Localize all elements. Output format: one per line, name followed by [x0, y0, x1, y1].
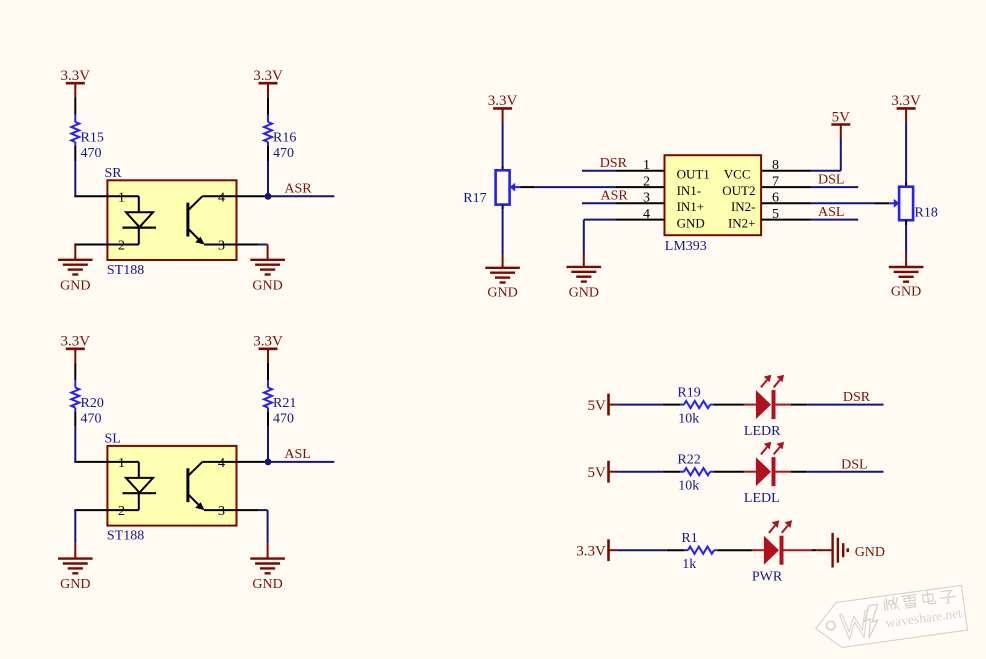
pin 1 of SL: [74, 456, 139, 471]
svg-text:470: 470: [81, 146, 102, 161]
svg-text:IN1+: IN1+: [677, 199, 705, 214]
pin 4 of SR: [202, 190, 264, 205]
pin label IN1+: [677, 199, 705, 214]
svg-text:6: 6: [772, 191, 779, 206]
svg-text:R15: R15: [81, 131, 104, 146]
pin 8 of U1: [761, 158, 811, 173]
svg-text:2: 2: [118, 504, 125, 519]
svg-text:7: 7: [772, 174, 779, 189]
wire (R21 to node ASL): [267, 412, 269, 462]
pin label OUT1: [677, 167, 710, 182]
svg-text:VCC: VCC: [724, 167, 751, 182]
pin 2 of U1: [616, 174, 665, 189]
node ASR junction: [265, 193, 272, 200]
resistor R21 470: [264, 380, 296, 427]
wire net ASL: [811, 205, 858, 220]
svg-text:SL: SL: [105, 432, 121, 447]
ground (SL pin 2): [58, 510, 93, 592]
svg-text:3: 3: [218, 504, 225, 519]
power 5V (row LEDL): [588, 461, 609, 483]
svg-text:5V: 5V: [588, 398, 607, 414]
resistor R15 470: [71, 115, 104, 162]
svg-text:IN1-: IN1-: [677, 183, 702, 198]
pin label VCC: [724, 167, 751, 182]
svg-text:DSL: DSL: [841, 457, 867, 472]
svg-text:ASL: ASL: [818, 205, 844, 220]
power 3.3V (SL right rail): [253, 334, 283, 363]
LED diode inside SL: [123, 462, 157, 510]
wire net ASL: [268, 447, 334, 462]
wire (R19 to LEDR): [714, 404, 744, 406]
resistor R1 1k: [681, 531, 717, 572]
ground (R17): [485, 254, 520, 300]
svg-text:3.3V: 3.3V: [891, 93, 921, 109]
svg-text:R19: R19: [677, 386, 700, 401]
wire (5V to R22): [609, 471, 681, 473]
ground (U1 pin 4): [567, 254, 602, 301]
svg-text:3: 3: [218, 239, 225, 254]
wire (3.3V to R18): [905, 122, 907, 186]
LED emission arrow: [774, 442, 784, 455]
svg-text:R22: R22: [677, 453, 700, 468]
wire (pin 6 to R18 wiper): [811, 199, 900, 208]
svg-text:ASL: ASL: [284, 447, 310, 462]
wire net ASR: [268, 181, 334, 196]
svg-text:GND: GND: [855, 545, 885, 560]
svg-text:470: 470: [81, 412, 102, 427]
power 3.3V (R18 rail): [891, 93, 921, 122]
pin label IN2-: [731, 199, 756, 214]
svg-text:DSR: DSR: [600, 156, 628, 171]
pin 4 of SL: [202, 456, 264, 471]
wire (R17 wiper to pin 2): [510, 183, 616, 192]
svg-text:GND: GND: [677, 216, 705, 231]
wire (R1 to PWR): [718, 549, 752, 551]
resistor R19 10k: [677, 386, 713, 427]
power 3.3V (SR right rail): [253, 68, 283, 97]
svg-text:GND: GND: [60, 278, 90, 293]
svg-text:8: 8: [772, 158, 779, 173]
svg-text:1: 1: [643, 158, 650, 173]
svg-text:ST188: ST188: [107, 263, 144, 278]
wire net DSR: [582, 156, 628, 171]
pin label GND: [677, 216, 705, 231]
power 3.3V (SL left rail): [61, 334, 91, 363]
svg-text:3.3V: 3.3V: [61, 68, 91, 84]
power 5V (U1): [831, 109, 850, 138]
svg-text:10k: 10k: [678, 412, 699, 427]
ground (rotated, PWR row): [833, 533, 885, 568]
svg-text:5: 5: [772, 207, 779, 222]
svg-text:SR: SR: [105, 166, 123, 181]
wire net DSL (LEDL): [776, 457, 884, 472]
svg-text:DSL: DSL: [818, 173, 844, 188]
svg-text:4: 4: [643, 207, 650, 222]
wire (3.3V to R1): [609, 549, 685, 551]
wire (R20 to pin 1): [74, 412, 76, 462]
pin label OUT2: [722, 183, 755, 198]
power 3.3V (row PWR): [576, 539, 608, 561]
wire (pin 8 to 5V): [811, 138, 841, 171]
wire net DSL: [811, 173, 858, 188]
LED emission arrow: [774, 375, 784, 388]
phototransistor inside SR: [188, 196, 205, 244]
svg-text:R18: R18: [915, 206, 938, 221]
svg-text:1k: 1k: [682, 557, 696, 572]
phototransistor inside SL: [188, 462, 205, 510]
pin 3 of SL: [204, 504, 258, 519]
LED emission arrow: [761, 375, 771, 388]
wire (3.3V to R20): [74, 363, 76, 380]
svg-text:OUT2: OUT2: [722, 183, 755, 198]
resistor R16 470: [264, 115, 296, 162]
svg-text:3.3V: 3.3V: [61, 334, 91, 350]
wire (pin 4 to ground): [584, 220, 616, 254]
LED emission arrow: [761, 442, 771, 455]
watermark waveshare logo tag: [816, 585, 968, 647]
ground (SR pin 3): [250, 245, 285, 294]
node ASL junction: [265, 459, 272, 466]
ground (R18): [889, 254, 924, 300]
svg-text:ST188: ST188: [107, 528, 144, 543]
pin 6 of U1: [761, 191, 811, 206]
power 3.3V (SR left rail): [61, 68, 91, 97]
LED PWR: [752, 536, 784, 585]
pin 1 of U1: [616, 158, 665, 173]
optocoupler SR ST188 body: [105, 166, 237, 278]
svg-text:IN2-: IN2-: [731, 199, 756, 214]
svg-text:5V: 5V: [832, 109, 851, 125]
svg-text:GND: GND: [252, 278, 282, 293]
LED emission arrow: [769, 520, 779, 533]
svg-text:LM393: LM393: [665, 239, 707, 254]
wire (pin 3 to ground): [258, 244, 268, 246]
potentiometer R18: [899, 187, 938, 221]
svg-text:GND: GND: [891, 285, 921, 300]
wire (3.3V to R17): [502, 122, 504, 170]
pin label IN1-: [677, 183, 702, 198]
wire (R16 to node ASR): [267, 146, 269, 196]
svg-text:R1: R1: [681, 531, 697, 546]
pin 3 of SR: [204, 239, 258, 254]
svg-text:ASR: ASR: [284, 181, 312, 196]
wire (R15 to pin 1): [74, 146, 76, 196]
svg-text:DSR: DSR: [843, 390, 871, 405]
svg-text:1: 1: [118, 456, 125, 471]
resistor R20 470: [71, 380, 104, 427]
svg-text:GND: GND: [569, 285, 599, 300]
svg-text:R17: R17: [463, 191, 486, 206]
svg-text:3: 3: [643, 191, 650, 206]
svg-text:PWR: PWR: [752, 570, 783, 585]
ground (SL pin 3): [250, 510, 285, 592]
pin 7 of U1: [761, 174, 811, 189]
svg-text:LEDR: LEDR: [744, 424, 781, 439]
LED LEDR: [744, 390, 781, 439]
wire (R18 to ground): [905, 220, 907, 253]
wire net ASR: [582, 189, 628, 204]
svg-text:1: 1: [118, 190, 125, 205]
pin 1 of SR: [74, 190, 139, 205]
svg-text:R20: R20: [81, 396, 104, 411]
wire (PWR LED to ground): [784, 549, 832, 551]
svg-text:470: 470: [273, 412, 294, 427]
svg-text:3.3V: 3.3V: [253, 68, 283, 84]
power 3.3V (R17 rail): [488, 93, 518, 122]
LED diode inside SR: [123, 196, 157, 244]
svg-text:2: 2: [643, 174, 650, 189]
svg-text:GND: GND: [60, 577, 90, 592]
svg-text:3.3V: 3.3V: [576, 544, 606, 560]
svg-text:5V: 5V: [588, 465, 607, 481]
svg-text:OUT1: OUT1: [677, 167, 710, 182]
pin label IN2+: [728, 216, 756, 231]
svg-text:ASR: ASR: [601, 189, 629, 204]
svg-text:10k: 10k: [678, 479, 699, 494]
resistor R22 10k: [677, 453, 713, 494]
potentiometer R17: [463, 170, 509, 206]
svg-text:4: 4: [218, 456, 225, 471]
svg-text:3.3V: 3.3V: [488, 93, 518, 109]
pin 2 of SR: [74, 239, 139, 254]
wire (R22 to LEDL): [714, 471, 744, 473]
LED emission arrow: [782, 520, 792, 533]
svg-text:470: 470: [273, 146, 294, 161]
wire net DSR (LEDR): [776, 390, 884, 405]
pin 2 of SL: [74, 504, 139, 519]
wire (R17 to ground): [502, 205, 504, 255]
wire (5V to R19): [609, 404, 681, 406]
svg-text:4: 4: [218, 190, 225, 205]
svg-text:GND: GND: [252, 577, 282, 592]
svg-text:R21: R21: [273, 396, 296, 411]
ground (SR pin 2): [58, 245, 93, 294]
wire (3.3V to R21): [267, 363, 269, 380]
op-amp U1 LM393 body: [665, 155, 762, 254]
pin 4 of U1: [616, 207, 665, 222]
wire (pin 3 to ground): [258, 509, 268, 511]
pin 3 of U1: [616, 191, 665, 206]
svg-text:IN2+: IN2+: [728, 216, 756, 231]
optocoupler SL ST188 body: [105, 432, 237, 544]
power 5V (row LEDR): [588, 394, 609, 416]
wire (3.3V to R15): [74, 97, 76, 114]
svg-text:LEDL: LEDL: [744, 491, 780, 506]
svg-text:GND: GND: [487, 286, 517, 301]
svg-text:R16: R16: [273, 131, 296, 146]
wire (3.3V to R16): [267, 97, 269, 114]
svg-text:2: 2: [118, 239, 125, 254]
pin 5 of U1: [761, 207, 811, 222]
LED LEDL: [744, 457, 780, 506]
svg-text:3.3V: 3.3V: [253, 334, 283, 350]
